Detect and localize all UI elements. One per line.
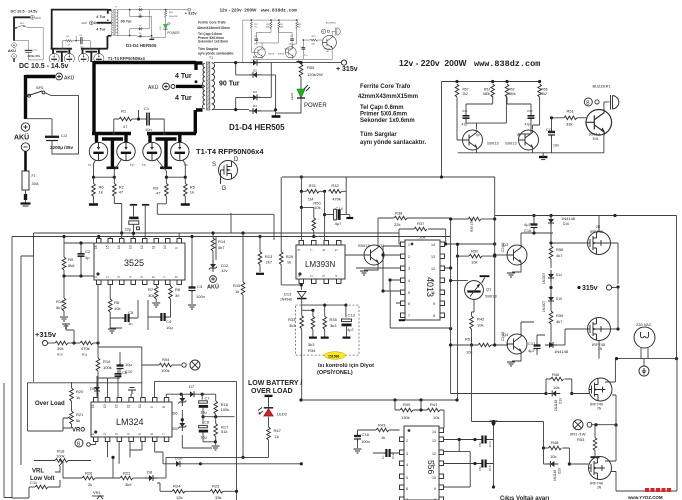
svg-text:22k: 22k bbox=[394, 222, 400, 227]
svg-text:1N4148: 1N4148 bbox=[554, 349, 569, 354]
svg-text:DC 10.5 - 14.5v: DC 10.5 - 14.5v bbox=[19, 63, 69, 70]
svg-text:Tüm Sargılar: Tüm Sargılar bbox=[360, 132, 397, 138]
svg-text:1N4548: 1N4548 bbox=[280, 298, 292, 302]
svg-text:4: 4 bbox=[126, 433, 130, 435]
svg-text:2: 2 bbox=[408, 255, 410, 259]
svg-text:R32: R32 bbox=[331, 183, 339, 188]
svg-text:C3: C3 bbox=[197, 284, 203, 289]
svg-text:R57: R57 bbox=[463, 88, 469, 92]
svg-text:12: 12 bbox=[431, 267, 435, 271]
svg-text:D15: D15 bbox=[556, 297, 562, 301]
svg-text:12k: 12k bbox=[176, 495, 182, 500]
svg-text:VRL: VRL bbox=[32, 469, 44, 475]
svg-text:47p: 47p bbox=[525, 123, 531, 127]
svg-text:D10: D10 bbox=[175, 456, 183, 461]
svg-text:G: G bbox=[222, 186, 227, 192]
svg-text:7: 7 bbox=[408, 314, 410, 318]
svg-text:100n: 100n bbox=[361, 439, 370, 444]
svg-text:4k7: 4k7 bbox=[556, 319, 563, 324]
svg-text:LM393N: LM393N bbox=[305, 260, 335, 269]
svg-text:47: 47 bbox=[156, 190, 161, 195]
svg-text:LOW BATTERY /: LOW BATTERY / bbox=[248, 380, 302, 387]
svg-text:47: 47 bbox=[123, 124, 128, 129]
svg-text:Q5: Q5 bbox=[517, 133, 521, 137]
svg-text:C18: C18 bbox=[362, 432, 370, 437]
svg-text:D5: D5 bbox=[173, 426, 179, 431]
svg-text:30k: 30k bbox=[148, 293, 154, 298]
svg-text:7: 7 bbox=[310, 249, 314, 251]
svg-text:C16: C16 bbox=[524, 228, 532, 233]
svg-text:R29: R29 bbox=[286, 254, 294, 259]
svg-text:12v - 220v 200W: 12v - 220v 200W bbox=[399, 58, 468, 68]
svg-text:5k6: 5k6 bbox=[68, 263, 75, 268]
svg-text:4µ7: 4µ7 bbox=[347, 327, 355, 332]
svg-text:10k: 10k bbox=[550, 454, 556, 459]
svg-text:1k: 1k bbox=[235, 289, 239, 294]
svg-text:5k1: 5k1 bbox=[56, 305, 63, 310]
svg-text:R52: R52 bbox=[509, 88, 515, 92]
svg-text:7: 7 bbox=[162, 433, 166, 435]
svg-text:3: 3 bbox=[322, 275, 326, 277]
svg-text:R40: R40 bbox=[403, 402, 411, 407]
svg-text:1k: 1k bbox=[99, 189, 103, 194]
svg-text:11: 11 bbox=[126, 404, 130, 408]
svg-text:R51: R51 bbox=[465, 337, 473, 342]
svg-text:1N4007: 1N4007 bbox=[542, 273, 546, 284]
svg-text:C19: C19 bbox=[391, 453, 395, 459]
svg-text:13: 13 bbox=[432, 439, 436, 443]
svg-text:OVER LOAD: OVER LOAD bbox=[251, 388, 293, 395]
svg-text:3: 3 bbox=[406, 452, 408, 456]
svg-text:680k: 680k bbox=[509, 92, 517, 96]
svg-text:AKÜ: AKÜ bbox=[64, 75, 75, 82]
svg-text:10k: 10k bbox=[433, 415, 439, 420]
svg-text:6: 6 bbox=[150, 433, 154, 435]
svg-text:C15: C15 bbox=[488, 465, 492, 471]
svg-text:R53: R53 bbox=[484, 88, 490, 92]
svg-text:1N4148: 1N4148 bbox=[553, 470, 557, 481]
svg-text:10k: 10k bbox=[471, 260, 477, 265]
svg-text:12v: 12v bbox=[221, 268, 227, 273]
svg-text:39: 39 bbox=[175, 293, 180, 298]
svg-text:10k: 10k bbox=[419, 235, 425, 240]
svg-text:100k: 100k bbox=[56, 454, 65, 459]
svg-text:Q6: Q6 bbox=[476, 133, 480, 137]
svg-text:R14: R14 bbox=[218, 239, 226, 244]
svg-text:S9013: S9013 bbox=[485, 294, 497, 299]
svg-text:30k: 30k bbox=[57, 346, 63, 351]
svg-text:8: 8 bbox=[433, 314, 435, 318]
svg-text:R8: R8 bbox=[114, 300, 120, 305]
svg-text:2: 2 bbox=[310, 275, 314, 277]
svg-text:1n: 1n bbox=[128, 321, 132, 326]
svg-text:12: 12 bbox=[140, 245, 144, 249]
svg-text:5: 5 bbox=[408, 291, 410, 295]
svg-text:D13: D13 bbox=[284, 292, 292, 297]
svg-text:100k: 100k bbox=[103, 365, 112, 370]
svg-text:680k: 680k bbox=[483, 92, 491, 96]
svg-text:R20: R20 bbox=[76, 389, 84, 394]
svg-text:6: 6 bbox=[408, 302, 410, 306]
svg-text:LED2: LED2 bbox=[277, 411, 288, 416]
svg-text:12: 12 bbox=[432, 452, 436, 456]
svg-text:230 VAC: 230 VAC bbox=[636, 322, 652, 327]
svg-text:C8: C8 bbox=[204, 419, 210, 424]
svg-text:R56: R56 bbox=[542, 88, 548, 92]
svg-text:1N4148: 1N4148 bbox=[561, 216, 576, 221]
svg-text:AKÜ: AKÜ bbox=[14, 133, 29, 142]
svg-text:R35: R35 bbox=[330, 317, 338, 322]
svg-text:R15: R15 bbox=[233, 283, 241, 288]
svg-text:10k: 10k bbox=[314, 205, 320, 210]
svg-text:2k7: 2k7 bbox=[266, 260, 273, 265]
svg-text:C7: C7 bbox=[205, 395, 211, 400]
svg-text:R7: R7 bbox=[148, 287, 154, 292]
svg-text:10µ: 10µ bbox=[166, 325, 173, 330]
svg-text:10: 10 bbox=[138, 404, 142, 408]
svg-text:AKÜ: AKÜ bbox=[207, 284, 219, 291]
svg-text:15: 15 bbox=[106, 245, 110, 249]
svg-text:R1: R1 bbox=[121, 109, 127, 114]
svg-text:10µ: 10µ bbox=[200, 434, 207, 439]
svg-text:0R1 /1W: 0R1 /1W bbox=[570, 432, 586, 437]
svg-text:S9013: S9013 bbox=[505, 141, 517, 146]
svg-text:C12: C12 bbox=[527, 109, 533, 113]
svg-text:C11: C11 bbox=[30, 480, 38, 485]
svg-text:33k: 33k bbox=[566, 122, 572, 127]
svg-text:5: 5 bbox=[335, 249, 339, 251]
svg-text:14: 14 bbox=[91, 404, 95, 408]
svg-text:4 Tur: 4 Tur bbox=[175, 95, 192, 102]
svg-text:S/R1: S/R1 bbox=[36, 86, 44, 90]
svg-text:1k: 1k bbox=[190, 189, 194, 194]
svg-text:2: 2 bbox=[406, 439, 408, 443]
svg-text:2N: 2N bbox=[597, 486, 602, 490]
svg-text:R22: R22 bbox=[123, 471, 131, 476]
svg-text:15n: 15n bbox=[478, 466, 482, 471]
svg-text:R10: R10 bbox=[57, 353, 63, 357]
svg-text:D14: D14 bbox=[556, 273, 562, 277]
svg-text:8: 8 bbox=[175, 276, 179, 278]
svg-text:T2: T2 bbox=[130, 163, 134, 167]
svg-text:1N4007: 1N4007 bbox=[542, 301, 546, 312]
svg-text:2N: 2N bbox=[596, 225, 601, 229]
svg-text:C4: C4 bbox=[166, 319, 172, 324]
svg-text:14: 14 bbox=[432, 430, 436, 434]
svg-text:100k: 100k bbox=[221, 407, 230, 412]
svg-text:R23: R23 bbox=[212, 484, 220, 489]
svg-text:T3: T3 bbox=[142, 163, 146, 167]
svg-text:10k: 10k bbox=[553, 385, 559, 390]
svg-text:10: 10 bbox=[432, 476, 436, 480]
svg-text:www.YYDZ.COM: www.YYDZ.COM bbox=[627, 495, 663, 500]
svg-text:D: D bbox=[234, 157, 239, 163]
svg-text:R55: R55 bbox=[307, 65, 315, 70]
svg-text:470k: 470k bbox=[332, 197, 341, 202]
svg-text:1µ: 1µ bbox=[85, 255, 90, 260]
svg-text:R50: R50 bbox=[471, 249, 479, 254]
svg-text:10k: 10k bbox=[114, 306, 120, 311]
svg-text:Çıkış Voltajı ayarı: Çıkış Voltajı ayarı bbox=[500, 496, 550, 500]
svg-text:R51: R51 bbox=[567, 109, 575, 114]
svg-text:D1: D1 bbox=[253, 55, 257, 59]
svg-text:13: 13 bbox=[129, 245, 133, 249]
svg-text:9: 9 bbox=[433, 302, 435, 306]
svg-text:33k: 33k bbox=[215, 495, 221, 500]
svg-text:6: 6 bbox=[152, 276, 156, 278]
svg-text:Ferrite Core Trafo: Ferrite Core Trafo bbox=[360, 84, 411, 90]
svg-text:22µ: 22µ bbox=[125, 226, 132, 231]
svg-text:1k: 1k bbox=[275, 434, 279, 439]
svg-text:D19: D19 bbox=[559, 398, 563, 404]
svg-text:Over Load: Over Load bbox=[35, 401, 65, 407]
svg-text:R13: R13 bbox=[265, 254, 273, 259]
svg-text:10: 10 bbox=[163, 245, 167, 249]
svg-text:BUZZER1: BUZZER1 bbox=[593, 84, 612, 89]
svg-text:D20: D20 bbox=[558, 468, 562, 474]
svg-text:47: 47 bbox=[119, 189, 124, 194]
svg-text:1k: 1k bbox=[287, 260, 291, 265]
svg-text:R59: R59 bbox=[556, 313, 564, 318]
svg-text:R48: R48 bbox=[551, 440, 559, 445]
svg-text:151586: 151586 bbox=[328, 355, 339, 359]
svg-text:3525: 3525 bbox=[124, 258, 144, 268]
svg-text:C2: C2 bbox=[85, 249, 91, 254]
svg-text:15n: 15n bbox=[478, 442, 482, 447]
svg-text:3: 3 bbox=[115, 433, 119, 435]
svg-text:4: 4 bbox=[335, 275, 339, 277]
svg-text:2N: 2N bbox=[597, 407, 602, 411]
svg-text:3: 3 bbox=[408, 267, 410, 271]
svg-text:3k3: 3k3 bbox=[289, 323, 296, 328]
svg-text:F1: F1 bbox=[32, 174, 36, 178]
svg-text:10: 10 bbox=[431, 291, 435, 295]
svg-text:AKÜ: AKÜ bbox=[148, 84, 159, 91]
svg-text:9: 9 bbox=[175, 247, 179, 249]
svg-text:R34: R34 bbox=[308, 348, 316, 353]
svg-text:6: 6 bbox=[406, 487, 408, 491]
svg-text:R37: R37 bbox=[417, 221, 425, 226]
svg-text:9: 9 bbox=[434, 487, 436, 491]
svg-text:1: 1 bbox=[408, 243, 410, 247]
svg-text:D8: D8 bbox=[147, 470, 153, 475]
svg-text:30A: 30A bbox=[32, 181, 39, 186]
svg-text:4µ7: 4µ7 bbox=[335, 221, 343, 226]
svg-text:R12: R12 bbox=[56, 299, 64, 304]
svg-text:Sekonder 1x0.6mm: Sekonder 1x0.6mm bbox=[360, 118, 415, 124]
svg-text:4k7: 4k7 bbox=[218, 245, 225, 250]
svg-text:470k: 470k bbox=[81, 346, 90, 351]
svg-text:www.838dz.com: www.838dz.com bbox=[474, 59, 540, 69]
svg-text:5: 5 bbox=[406, 476, 408, 480]
svg-text:C/2: C/2 bbox=[61, 133, 68, 138]
svg-text:T1-T4 RFP50N06x4: T1-T4 RFP50N06x4 bbox=[196, 147, 264, 156]
svg-text:1: 1 bbox=[94, 276, 98, 278]
svg-text:R58: R58 bbox=[556, 247, 564, 252]
svg-text:S9013: S9013 bbox=[358, 243, 370, 248]
svg-text:130k: 130k bbox=[401, 415, 410, 420]
svg-text:R19: R19 bbox=[103, 359, 111, 364]
svg-text:R11: R11 bbox=[82, 353, 88, 357]
svg-text:4: 4 bbox=[406, 463, 408, 467]
svg-text:4: 4 bbox=[408, 279, 410, 283]
svg-text:C5: C5 bbox=[128, 310, 134, 315]
svg-text:2: 2 bbox=[103, 433, 107, 435]
svg-text:2k2: 2k2 bbox=[542, 92, 547, 96]
svg-text:4k7: 4k7 bbox=[556, 253, 563, 258]
svg-text:11: 11 bbox=[431, 279, 435, 283]
svg-text:Tel Çapı 0.6mm: Tel Çapı 0.6mm bbox=[360, 105, 404, 111]
svg-text:8: 8 bbox=[297, 249, 301, 251]
svg-text:Q2: Q2 bbox=[379, 243, 385, 248]
svg-text:+315v: +315v bbox=[35, 330, 57, 339]
svg-text:C13: C13 bbox=[348, 313, 356, 318]
svg-text:9: 9 bbox=[150, 406, 154, 408]
svg-text:3: 3 bbox=[117, 276, 121, 278]
svg-text:3k9: 3k9 bbox=[125, 482, 132, 487]
svg-text:R43: R43 bbox=[378, 423, 386, 428]
svg-text:T1: T1 bbox=[209, 56, 213, 60]
svg-text:Primer 5X0.6mm: Primer 5X0.6mm bbox=[360, 112, 407, 118]
svg-text:100k: 100k bbox=[161, 368, 170, 373]
svg-text:R41: R41 bbox=[430, 402, 438, 407]
svg-text:S9014: S9014 bbox=[589, 131, 601, 136]
svg-text:10n: 10n bbox=[145, 127, 152, 132]
svg-text:D1-D4 HER505: D1-D4 HER505 bbox=[229, 123, 285, 132]
svg-text:R28: R28 bbox=[85, 471, 93, 476]
svg-text:D2: D2 bbox=[253, 69, 257, 73]
svg-text:10µ: 10µ bbox=[125, 362, 132, 367]
svg-text:LED1: LED1 bbox=[290, 92, 294, 100]
svg-text:R31: R31 bbox=[309, 183, 317, 188]
svg-text:3k3: 3k3 bbox=[308, 342, 315, 347]
svg-text:Q3: Q3 bbox=[503, 242, 509, 247]
svg-text:R9: R9 bbox=[68, 257, 74, 262]
svg-text:5: 5 bbox=[138, 433, 142, 435]
svg-text:D6: D6 bbox=[173, 411, 179, 416]
svg-text:10k: 10k bbox=[477, 323, 483, 328]
svg-text:R24: R24 bbox=[173, 484, 181, 489]
svg-text:13: 13 bbox=[431, 255, 435, 259]
svg-text:1: 1 bbox=[91, 433, 95, 435]
svg-text:16: 16 bbox=[94, 245, 98, 249]
svg-text:C13: C13 bbox=[488, 441, 492, 447]
svg-text:6: 6 bbox=[322, 249, 326, 251]
svg-text:D16: D16 bbox=[563, 222, 569, 226]
svg-text:Q1: Q1 bbox=[486, 287, 492, 292]
svg-text:POWER: POWER bbox=[304, 103, 327, 109]
svg-text:2k2: 2k2 bbox=[463, 92, 468, 96]
svg-text:1n: 1n bbox=[381, 455, 385, 459]
svg-text:4 Tur: 4 Tur bbox=[175, 73, 192, 80]
svg-text:13: 13 bbox=[103, 404, 107, 408]
svg-text:2N1: 2N1 bbox=[593, 137, 599, 141]
svg-text:5: 5 bbox=[140, 276, 144, 278]
svg-text:C1: C1 bbox=[144, 106, 150, 111]
svg-text:C17: C17 bbox=[528, 341, 536, 346]
svg-text:5k: 5k bbox=[76, 418, 80, 423]
svg-text:R42: R42 bbox=[477, 317, 485, 322]
svg-text:7: 7 bbox=[163, 276, 167, 278]
svg-text:T1: T1 bbox=[88, 163, 92, 167]
svg-text:14: 14 bbox=[117, 245, 121, 249]
svg-text:R6: R6 bbox=[175, 287, 181, 292]
svg-text:R54: R54 bbox=[162, 357, 170, 362]
svg-text:LM324: LM324 bbox=[116, 417, 144, 427]
svg-text:R38: R38 bbox=[395, 211, 403, 216]
svg-text:2: 2 bbox=[106, 276, 110, 278]
svg-text:C6: C6 bbox=[122, 370, 128, 375]
svg-text:10µ: 10µ bbox=[200, 410, 207, 415]
svg-text:100n: 100n bbox=[196, 294, 205, 299]
svg-text:14: 14 bbox=[431, 243, 435, 247]
svg-text:12: 12 bbox=[115, 404, 119, 408]
svg-text:+ 315v: + 315v bbox=[336, 66, 358, 73]
svg-text:8: 8 bbox=[162, 406, 166, 408]
svg-text:R21: R21 bbox=[76, 412, 84, 417]
svg-text:C11: C11 bbox=[462, 109, 468, 113]
svg-text:R39 470k: R39 470k bbox=[470, 218, 474, 232]
svg-text:D5: D5 bbox=[90, 386, 96, 391]
svg-text:51k: 51k bbox=[221, 429, 227, 434]
svg-text:120k/2W: 120k/2W bbox=[307, 72, 323, 77]
svg-text:D3: D3 bbox=[253, 90, 257, 94]
svg-text:(OPSİYONEL): (OPSİYONEL) bbox=[317, 369, 353, 376]
svg-text:11: 11 bbox=[152, 245, 156, 249]
svg-text:D7: D7 bbox=[189, 384, 195, 389]
svg-text:R33: R33 bbox=[288, 317, 296, 322]
svg-text:315v: 315v bbox=[582, 285, 598, 292]
svg-text:aynı yönde sarılacaktır.: aynı yönde sarılacaktır. bbox=[360, 140, 426, 146]
svg-text:Q4: Q4 bbox=[503, 332, 509, 337]
svg-text:Isı kontrolü için Diyot: Isı kontrolü için Diyot bbox=[318, 363, 374, 369]
svg-text:VRO: VRO bbox=[72, 428, 85, 434]
svg-text:4: 4 bbox=[129, 276, 133, 278]
svg-text:3k3: 3k3 bbox=[330, 323, 337, 328]
svg-text:S: S bbox=[212, 162, 216, 168]
svg-text:IRF740: IRF740 bbox=[590, 229, 604, 234]
svg-text:R47: R47 bbox=[274, 428, 282, 433]
svg-text:R46: R46 bbox=[552, 372, 560, 377]
svg-text:4µ7: 4µ7 bbox=[528, 348, 536, 353]
svg-text:D4: D4 bbox=[253, 104, 257, 108]
svg-text:2200µ /35v: 2200µ /35v bbox=[50, 145, 74, 150]
svg-text:90 Tur: 90 Tur bbox=[219, 81, 240, 88]
svg-text:10n: 10n bbox=[553, 144, 559, 148]
svg-text:2k: 2k bbox=[88, 482, 92, 487]
svg-text:1N4148: 1N4148 bbox=[554, 400, 558, 411]
svg-text:R53: R53 bbox=[577, 437, 585, 442]
svg-text:1k: 1k bbox=[381, 435, 385, 440]
svg-text:VR1: VR1 bbox=[93, 490, 102, 495]
svg-text:1k: 1k bbox=[76, 395, 80, 400]
svg-text:S9013: S9013 bbox=[487, 141, 499, 146]
svg-text:4µ7: 4µ7 bbox=[524, 222, 532, 227]
svg-text:11: 11 bbox=[432, 463, 436, 467]
svg-text:42mmX43mmX15mm: 42mmX43mmX15mm bbox=[358, 94, 418, 100]
